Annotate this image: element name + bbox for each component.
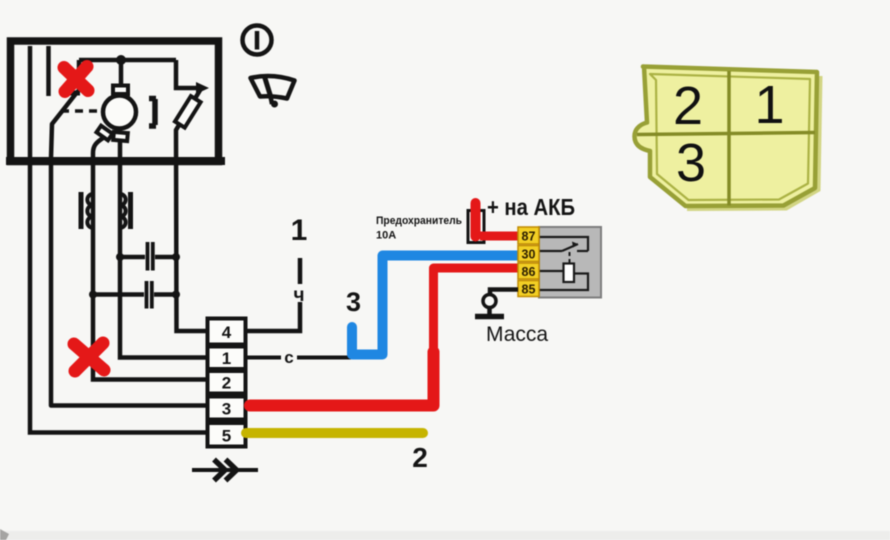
red X mark 2 (wire crossed out) — [74, 343, 104, 371]
red X mark 1 (switch crossed out) — [64, 67, 88, 92]
node C1-left — [116, 253, 124, 261]
power symbol (circled 1) — [243, 26, 272, 55]
inductor L1 core bar — [79, 192, 84, 229]
ground (Масса) — [475, 290, 518, 317]
svg-text:с: с — [284, 348, 293, 367]
svg-text:1: 1 — [291, 214, 308, 247]
wire from pin 4 up to node 1 — [246, 302, 301, 331]
fuse F1 10A — [468, 211, 484, 243]
svg-text:4: 4 — [222, 323, 232, 342]
capacitor C1 wire — [120, 255, 145, 260]
relay pin 87 — [518, 227, 539, 244]
inductor L2 (bumps on w4) — [120, 194, 126, 228]
blue wire 3 (to relay pin 30) — [352, 256, 518, 355]
connector X2 body — [635, 67, 818, 207]
svg-text:3: 3 — [346, 287, 361, 317]
svg-text:Масса: Масса — [486, 323, 548, 346]
wire w3 from left brush down to pin 2 — [93, 138, 207, 380]
mechanical link (dashed) — [61, 109, 101, 113]
thermal breaker diagonal lead — [176, 87, 207, 331]
svg-text:2: 2 — [222, 374, 231, 393]
svg-text:5: 5 — [222, 427, 231, 446]
capacitor C2 wire — [93, 292, 144, 297]
connector X1 pin 5 — [208, 423, 246, 447]
relay coil — [564, 264, 575, 283]
wire w4 from bottom brush down to pin 1 — [120, 141, 207, 358]
wiper icon — [251, 75, 295, 108]
direction arrow — [192, 460, 258, 481]
capacitor C1 plates — [146, 242, 150, 271]
connector X1 pin 1 — [208, 347, 246, 370]
svg-text:10А: 10А — [376, 230, 396, 242]
svg-text:86: 86 — [522, 265, 536, 279]
svg-text:1: 1 — [754, 75, 784, 135]
node: junction dot on bus — [116, 55, 126, 65]
node C2-right — [172, 291, 180, 299]
park switch blade — [51, 91, 207, 406]
svg-text:87: 87 — [522, 230, 536, 244]
relay pin 86 — [518, 263, 539, 279]
inductor L2 core bar — [128, 192, 133, 229]
svg-text:30: 30 — [522, 248, 536, 262]
svg-text:2: 2 — [412, 442, 428, 473]
svg-text:3: 3 — [676, 133, 706, 193]
relay coil link — [569, 252, 571, 263]
connector X1 pin 3 — [208, 397, 246, 420]
svg-text:+ на АКБ: + на АКБ — [487, 194, 575, 220]
relay internal 85 trace — [539, 274, 588, 291]
relay internal 30 trace with blade — [539, 250, 562, 252]
wire upper segment — [298, 258, 303, 284]
svg-text:3: 3 — [222, 400, 231, 419]
wire w2 (switch stub to pin 3) — [46, 46, 51, 96]
relay pin 85 — [518, 281, 539, 297]
motor M (armature circle) — [103, 96, 136, 129]
connector X2 (yellow block) shadow edge — [687, 76, 820, 209]
elbow wire to breaker with arrow — [176, 60, 200, 88]
node C1-right — [172, 253, 180, 261]
node C2-left — [89, 291, 97, 299]
motor bottom brush — [113, 132, 128, 141]
yellow wire 2 (from pin 5) — [246, 428, 423, 438]
red wire fuse to pin 87 — [480, 232, 518, 241]
motor top brush — [113, 86, 128, 95]
svg-text:1: 1 — [222, 349, 231, 368]
background strip bottom — [0, 531, 890, 540]
wire w1 (left vertical to pin 5) — [30, 46, 207, 433]
connector X1 pin 4 — [208, 319, 246, 345]
svg-text:Предохранитель: Предохранитель — [376, 215, 462, 227]
connector X2 vertical divider — [727, 71, 731, 206]
svg-text:85: 85 — [522, 283, 536, 297]
switch pivot riser — [77, 60, 82, 92]
red wire thin (relay pin 86 leg) — [434, 268, 519, 355]
park switch fixed contact bar — [60, 91, 80, 96]
inductor L1 (bumps on w3) — [87, 194, 93, 228]
wire from pin 1 (letter c) — [246, 356, 282, 360]
svg-text:ч: ч — [293, 285, 304, 306]
connector X2 horizontal divider — [637, 133, 815, 135]
motor bottom-left brush — [96, 126, 112, 141]
internal top bus wire — [79, 58, 176, 63]
relay internal contact 87 trace — [539, 237, 588, 251]
svg-text:2: 2 — [673, 76, 703, 136]
wiper motor box (housing) — [6, 41, 225, 162]
capacitor C2 plates — [145, 281, 149, 309]
relay pin 30 — [518, 246, 539, 262]
relay K1 body — [539, 227, 601, 298]
connector X2 inner line — [650, 74, 810, 200]
relay internal 86 trace — [539, 270, 564, 272]
thermal breaker body — [175, 96, 201, 128]
connector X1 pin 2 — [208, 371, 246, 394]
motor lead from bus — [119, 60, 124, 87]
arrowhead — [196, 82, 209, 94]
park contact plate — [149, 99, 156, 127]
red wire thick (to pin 3) — [250, 352, 434, 406]
